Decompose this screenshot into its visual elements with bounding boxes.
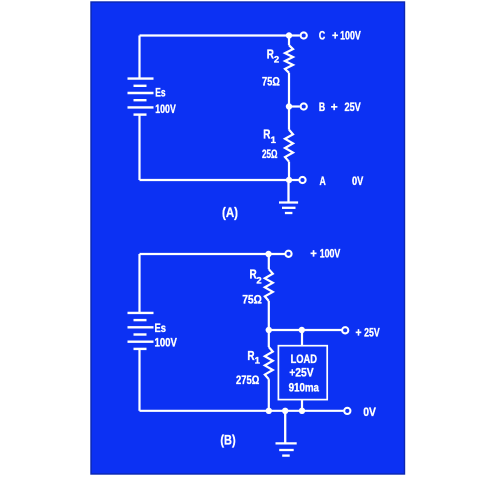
svg-text:100V: 100V [155,336,177,350]
wire left rail upper (B) [138,254,140,313]
svg-text:25V: 25V [364,325,380,339]
svg-text:275Ω: 275Ω [236,373,260,387]
node C junction dot [286,32,292,38]
resistor R1 (B) [265,347,273,379]
svg-text:(A): (A) [222,205,238,220]
wire load bottom lead (B) [301,400,303,411]
node load-bottom junction dot (B) [299,408,305,414]
wire R2 to mid node (B) [268,301,270,330]
svg-text:A: A [320,174,327,188]
node A junction dot [286,177,292,183]
svg-text:25Ω: 25Ω [262,147,278,161]
svg-text:100V: 100V [320,247,341,261]
svg-text:Es: Es [155,321,167,335]
node bottom-left junction dot (B) [266,408,272,414]
svg-text:2: 2 [274,55,279,66]
terminal +25V (B) [342,327,348,333]
svg-text:B: B [319,100,326,114]
svg-text:910ma: 910ma [289,381,320,395]
terminal +100V (B) [285,251,291,257]
ground (B) [276,412,297,456]
svg-text:2: 2 [256,276,261,287]
svg-text:+25V: +25V [289,366,313,380]
wire top rail (A) [140,34,290,36]
ground (A) [279,183,298,213]
svg-text:LOAD: LOAD [291,352,318,366]
wire bottom rail (B) [140,410,344,412]
wire stub node C to R2 (A) [288,36,290,46]
wire stub to terminal C [289,34,300,36]
wire stub top node to R2 (B) [268,254,270,269]
wire stub top terminal (B) [269,253,285,255]
svg-text:1: 1 [255,355,261,366]
terminal B [301,103,307,109]
load box outline (B) [278,346,327,400]
svg-text:1: 1 [271,135,277,146]
wire left rail lower (B) [138,349,140,411]
node B junction dot [286,103,292,109]
svg-text:0V: 0V [352,174,363,188]
wire load top lead (B) [301,330,303,346]
wire R2 to node B (A) [288,73,290,107]
node load-top junction dot (B) [299,327,305,333]
svg-text:100V: 100V [340,29,361,43]
terminal 0V (B) [344,408,350,414]
wire R1 to node A (A) [288,162,290,180]
wire stub to terminal B [289,105,300,107]
node ground junction dot (B) [282,408,288,414]
terminal A [299,177,305,183]
wire bottom rail (A) [140,179,290,181]
blue schematic panel background [91,2,406,475]
svg-text:(B): (B) [220,433,235,448]
battery Es (B) [128,313,154,349]
svg-text:+: + [310,247,317,261]
wire mid rail (B) [269,329,342,331]
wire node B to R1 (A) [288,107,290,130]
wire left rail upper (A) [138,36,140,79]
wire left rail lower (A) [138,115,140,180]
svg-text:+: + [356,325,362,339]
svg-text:25V: 25V [345,100,361,114]
battery Es (A) [128,79,154,115]
svg-text:+: + [331,100,338,114]
wire stub to terminal A [289,179,299,181]
terminal C [301,32,307,38]
svg-text:C: C [319,29,326,43]
resistor R1 (A) [285,130,293,162]
svg-text:75Ω: 75Ω [242,293,262,307]
panel dark border [91,2,405,474]
node +100V junction dot (B) [265,251,271,257]
wire top rail (B) [140,253,269,255]
wire mid node to R1 (B) [268,330,270,347]
svg-text:0V: 0V [363,405,376,419]
node mid-left junction dot (B) [266,327,272,333]
resistor R2 (B) [265,269,273,301]
svg-text:Es: Es [155,86,166,100]
wire R1 to bottom rail (B) [268,379,270,411]
svg-text:R: R [263,128,270,142]
svg-text:+: + [332,29,338,43]
svg-text:75Ω: 75Ω [262,74,280,88]
svg-text:R: R [247,349,254,363]
svg-text:100V: 100V [155,102,176,116]
resistor R2 (A) [285,45,293,73]
